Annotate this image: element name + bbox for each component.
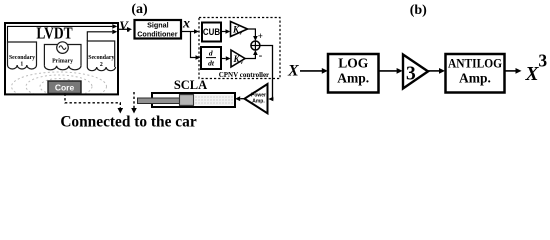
svg-text:X: X xyxy=(524,64,539,85)
svg-text:d: d xyxy=(209,49,213,58)
svg-text:3: 3 xyxy=(538,50,547,70)
svg-text:CUB: CUB xyxy=(203,26,220,37)
svg-text:P: P xyxy=(240,31,243,36)
svg-text:Connected to the car: Connected to the car xyxy=(60,114,197,129)
svg-text:dt: dt xyxy=(208,59,215,68)
svg-text:Conditioner: Conditioner xyxy=(137,30,178,39)
svg-text:-: - xyxy=(259,50,263,62)
svg-text:X: X xyxy=(287,63,299,80)
svg-text:CPNV controller: CPNV controller xyxy=(219,71,269,79)
svg-text:Signal: Signal xyxy=(147,21,169,30)
svg-text:Secondary: Secondary xyxy=(88,55,114,61)
svg-text:+: + xyxy=(258,31,263,41)
svg-text:SCLA: SCLA xyxy=(174,78,207,92)
svg-text:Secondary: Secondary xyxy=(9,55,35,61)
svg-text:(a): (a) xyxy=(131,2,148,17)
svg-text:Core: Core xyxy=(55,83,75,93)
svg-text:ANTILOG: ANTILOG xyxy=(448,56,502,71)
svg-text:Primary: Primary xyxy=(52,58,73,64)
svg-text:Amp.: Amp. xyxy=(459,71,491,86)
svg-text:Amp.: Amp. xyxy=(337,71,369,86)
svg-text:Amp.: Amp. xyxy=(252,99,265,105)
svg-text:3: 3 xyxy=(406,64,416,85)
svg-text:LVDT: LVDT xyxy=(36,24,72,43)
svg-text:1: 1 xyxy=(20,62,23,68)
svg-text:(b): (b) xyxy=(410,3,427,18)
svg-text:x: x xyxy=(182,16,190,31)
svg-text:2: 2 xyxy=(100,62,103,68)
svg-text:LOG: LOG xyxy=(338,56,369,71)
